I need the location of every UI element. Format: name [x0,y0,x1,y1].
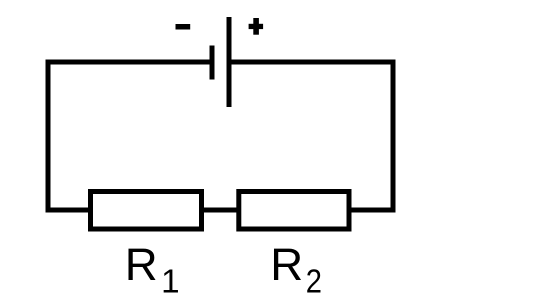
svg-text:R: R [270,239,303,290]
svg-text:R: R [125,239,158,290]
svg-text:1: 1 [161,263,179,300]
svg-text:2: 2 [306,263,322,300]
